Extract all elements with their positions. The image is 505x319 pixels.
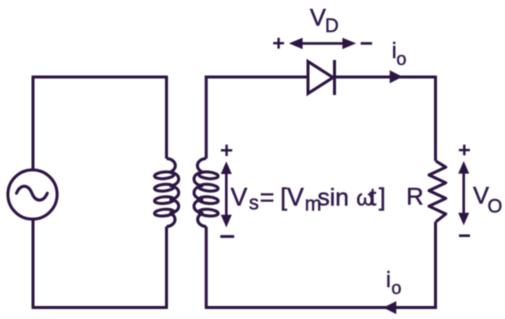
svg-text:D: D — [325, 16, 339, 37]
VD arrow right head — [342, 38, 356, 49]
svg-text:o: o — [391, 278, 401, 298]
svg-text:V: V — [310, 5, 326, 32]
svg-text:]: ] — [379, 183, 386, 211]
transformer secondary winding L2 loop ellipse 2 — [199, 184, 219, 192]
transformer primary winding L1 bump arcs — [167, 159, 179, 227]
wire: secondary loop left edge below coil — [205, 227, 208, 309]
diode D cathode bar — [333, 60, 336, 95]
transformer primary winding L1 loop ellipse 2 — [154, 184, 174, 192]
transformer secondary winding L2 bump arcs — [194, 159, 206, 227]
wire: load loop right edge above resistor — [434, 76, 437, 161]
VD arrow left head — [289, 38, 303, 49]
plus sign above VO arrow — [459, 145, 470, 156]
VO arrow shaft — [462, 166, 465, 221]
resistor R zigzag — [429, 161, 446, 222]
AC source sine symbol — [17, 186, 48, 200]
svg-text:R: R — [406, 184, 423, 211]
svg-text:i: i — [386, 267, 391, 292]
transformer secondary winding L2 loop ellipse 1 — [199, 171, 219, 179]
plus sign above VS arrow — [221, 145, 232, 156]
io bottom arrowhead on wire — [383, 301, 396, 314]
minus sign below VO arrow — [459, 234, 470, 237]
wire: primary loop top edge — [32, 76, 167, 79]
svg-text:[V: [V — [280, 183, 304, 211]
transformer secondary winding L2 loop ellipse 3 — [199, 196, 219, 204]
minus sign below VS arrow — [220, 235, 234, 238]
VO arrow bottom head — [458, 213, 469, 226]
svg-text:s: s — [249, 192, 259, 214]
wire: primary loop right edge below coil — [165, 227, 168, 309]
io top arrowhead on wire — [390, 70, 403, 83]
transformer primary winding L1 loop ellipse 4 — [154, 208, 174, 216]
svg-text:o: o — [396, 49, 406, 69]
wire: load loop right edge below resistor — [434, 222, 437, 309]
wire: primary loop left edge (bottom) — [32, 219, 35, 308]
transformer secondary winding L2 loop ellipse 4 — [199, 208, 219, 216]
svg-text:V: V — [231, 183, 248, 211]
wire: top edge from diode cathode to top-right corner — [333, 76, 436, 79]
wire: primary loop left edge (top) — [32, 77, 35, 171]
diode D triangle — [308, 62, 333, 94]
wire: bottom edge of load loop — [206, 306, 437, 309]
svg-text:=: = — [260, 183, 275, 211]
VS arrow shaft — [225, 166, 228, 223]
wire: primary loop right edge above coil — [165, 76, 168, 159]
wire: primary loop bottom edge — [32, 306, 167, 309]
plus sign near VD — [273, 38, 284, 49]
VD arrow shaft — [300, 42, 345, 45]
svg-text:t: t — [369, 183, 376, 211]
VO arrow top head — [458, 161, 469, 174]
transformer primary winding L1 loop ellipse 3 — [154, 196, 174, 204]
AC source VS circle — [8, 170, 57, 219]
svg-text:O: O — [488, 197, 503, 218]
minus sign near VD — [361, 42, 372, 45]
VS arrow bottom head — [221, 215, 232, 228]
transformer primary winding L1 loop ellipse 1 — [154, 171, 174, 179]
wire: secondary loop left edge above coil — [205, 76, 208, 159]
wire: top edge from secondary to diode anode — [205, 76, 307, 79]
svg-text:sin: sin — [318, 184, 349, 211]
VS arrow top head — [221, 161, 232, 174]
